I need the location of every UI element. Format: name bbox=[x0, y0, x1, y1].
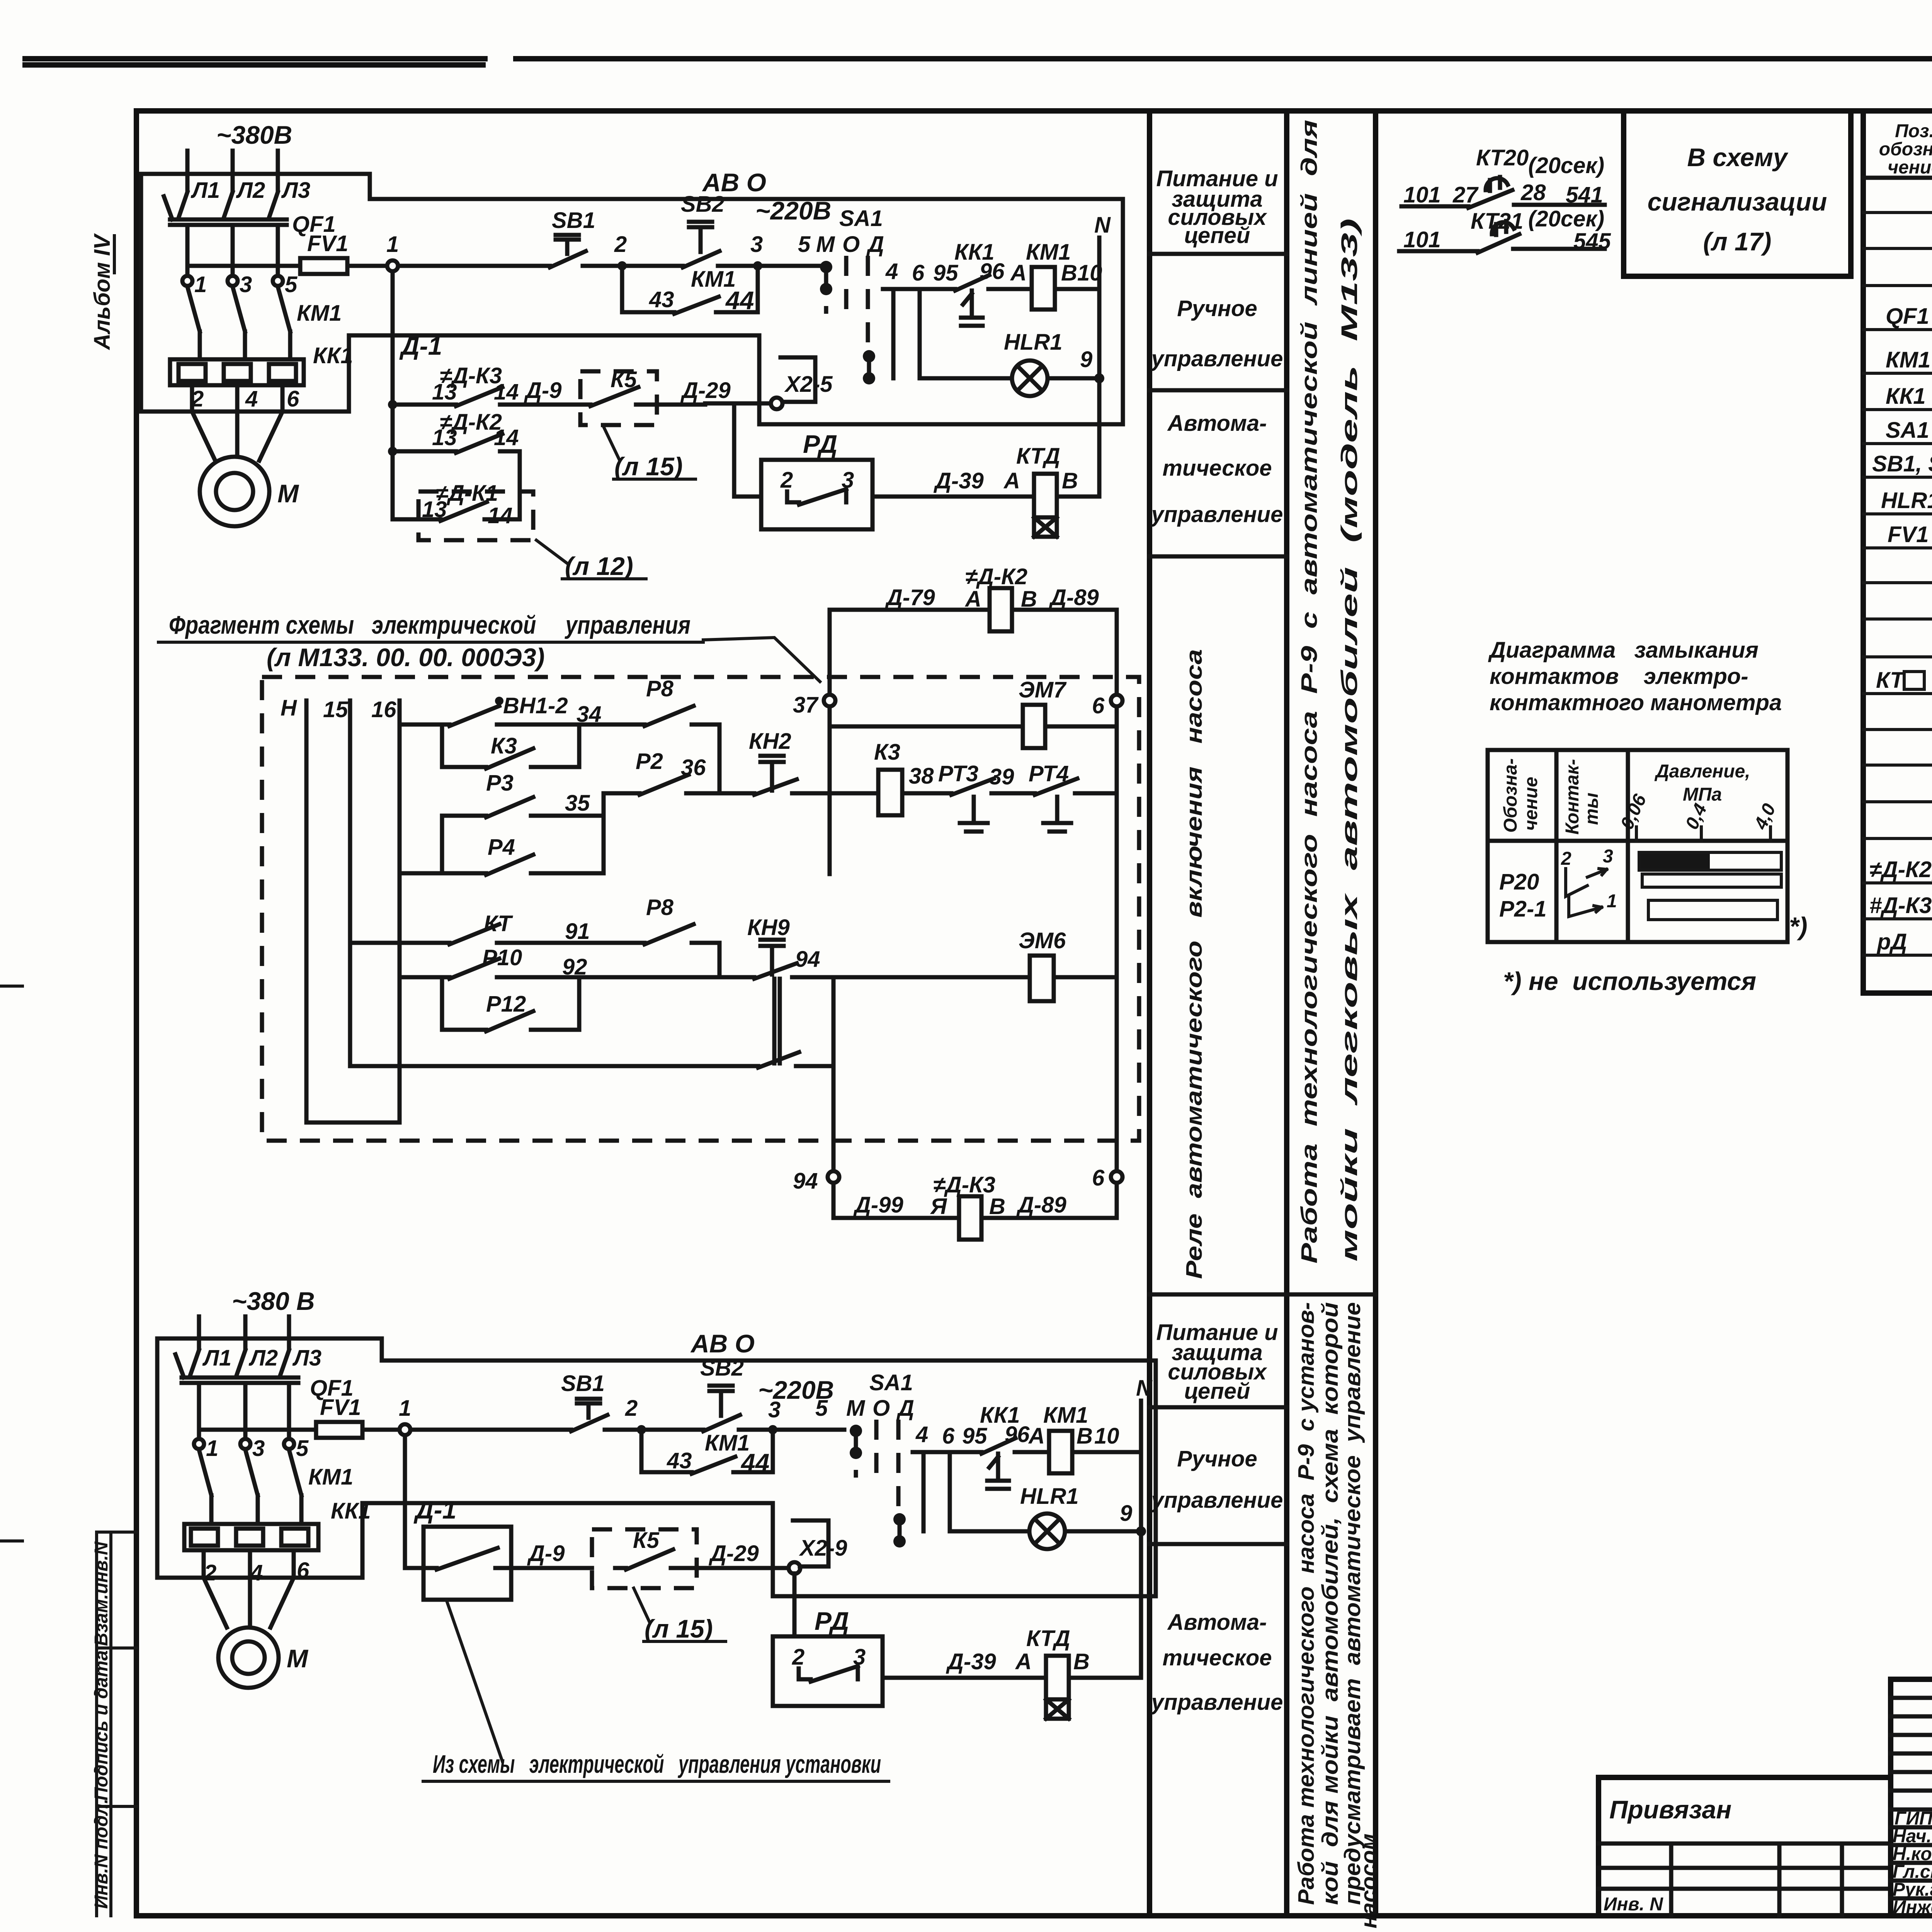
svg-text:РД: РД bbox=[815, 1607, 849, 1635]
svg-text:9: 9 bbox=[1120, 1501, 1132, 1526]
svg-text:кой для мойки автомобилей,: кой для мойки автомобилей, схема которой bbox=[1318, 1302, 1343, 1905]
button SB2 bbox=[683, 222, 719, 267]
svg-text:QF1: QF1 bbox=[1886, 304, 1929, 329]
svg-text:Л3: Л3 bbox=[292, 1345, 321, 1371]
svg-text:*): *) bbox=[1789, 912, 1808, 940]
svg-text:КН9: КН9 bbox=[747, 915, 790, 940]
pressure switch RD box bbox=[734, 403, 761, 497]
svg-text:Ручное: Ручное bbox=[1177, 1446, 1257, 1471]
Альбом IV rotated label bbox=[90, 233, 115, 350]
svg-text:Х2-9: Х2-9 bbox=[799, 1536, 847, 1561]
lamp HLR1 bbox=[1012, 361, 1048, 396]
note (l 12) bbox=[536, 540, 646, 579]
coil KM1 bbox=[1032, 267, 1055, 310]
svg-text:28: 28 bbox=[1520, 180, 1546, 205]
svg-text:FV1: FV1 bbox=[320, 1395, 361, 1420]
thermal relay KK1 heaters bbox=[170, 359, 304, 385]
svg-text:Альбом IV: Альбом IV bbox=[90, 233, 115, 350]
relay K5 contact (dashed box) bbox=[580, 371, 657, 425]
contact KK1 NC bbox=[955, 275, 989, 326]
svg-text:Р2: Р2 bbox=[636, 749, 663, 774]
svg-text:Л3: Л3 bbox=[281, 178, 310, 203]
bus N bbox=[306, 701, 400, 1122]
svg-text:14: 14 bbox=[488, 503, 513, 528]
svg-text:управление: управление bbox=[1150, 346, 1283, 371]
svg-text:1: 1 bbox=[386, 232, 399, 257]
contact RT4 bbox=[1035, 779, 1117, 832]
timer coil KTD bbox=[1034, 474, 1057, 517]
svg-text:АВ О: АВ О bbox=[690, 1329, 755, 1358]
svg-text:Фрагмент схемы электрической: Фрагмент схемы электрической управления bbox=[169, 611, 690, 639]
svg-text:3: 3 bbox=[768, 1397, 781, 1422]
wire hook to selector bbox=[793, 1520, 828, 1566]
svg-text:К3: К3 bbox=[874, 740, 900, 765]
svg-text:94: 94 bbox=[795, 947, 820, 972]
svg-text:В: В bbox=[1021, 587, 1037, 612]
svg-text:А: А bbox=[1015, 1649, 1032, 1674]
diagram table bbox=[1488, 750, 1787, 942]
svg-text:Д-9: Д-9 bbox=[524, 378, 561, 403]
contact VN1-2 row bbox=[400, 706, 579, 726]
fuse FV1 bbox=[199, 1428, 400, 1432]
coil D-K2 row bbox=[830, 610, 1117, 695]
svg-text:~380В: ~380В bbox=[216, 121, 292, 149]
wire 94 vertical bbox=[832, 977, 836, 1218]
contact KM1 aux 43-44 bbox=[641, 1430, 773, 1474]
wire node1 drop bbox=[391, 271, 395, 519]
svg-text:О: О bbox=[872, 1396, 890, 1421]
svg-text:Автома-: Автома- bbox=[1167, 411, 1267, 436]
svg-text:6: 6 bbox=[1092, 1165, 1105, 1190]
svg-text:Р2-1: Р2-1 bbox=[1499, 896, 1547, 922]
svg-text:4: 4 bbox=[245, 386, 258, 412]
svg-text:Р3: Р3 bbox=[486, 770, 514, 796]
svg-text:рД: рД bbox=[1876, 929, 1907, 954]
svg-text:В: В bbox=[1062, 468, 1078, 493]
svg-text:Л2: Л2 bbox=[236, 178, 265, 203]
contact D-K2 13-14 bbox=[393, 434, 520, 519]
svg-text:АВ О: АВ О bbox=[702, 168, 766, 197]
svg-text:Взам.инв.N: Взам.инв.N bbox=[91, 1541, 112, 1646]
svg-text:1: 1 bbox=[1607, 891, 1617, 912]
svg-text:SA1: SA1 bbox=[1886, 418, 1929, 443]
coil KM1 bbox=[1049, 1431, 1072, 1473]
svg-text:0,06: 0,06 bbox=[1617, 791, 1651, 832]
svg-text:5: 5 bbox=[815, 1396, 828, 1421]
svg-text:КМ1: КМ1 bbox=[308, 1464, 353, 1490]
svg-text:КК1: КК1 bbox=[1886, 384, 1926, 409]
wire to motor bbox=[204, 1550, 294, 1628]
svg-text:HLR1: HLR1 bbox=[1881, 488, 1932, 513]
svg-text:Из схемы электрической упр: Из схемы электрической управления устано… bbox=[433, 1750, 881, 1778]
svg-text:3: 3 bbox=[750, 232, 763, 257]
contact R4 bbox=[400, 793, 604, 875]
wire D-39 bbox=[883, 1676, 1141, 1680]
svg-text:В схему: В схему bbox=[1687, 143, 1788, 172]
svg-text:Д-29: Д-29 bbox=[708, 1541, 759, 1566]
svg-text:N: N bbox=[1094, 213, 1111, 238]
svg-text:96: 96 bbox=[1005, 1422, 1030, 1447]
svg-text:Р10: Р10 bbox=[482, 945, 522, 970]
svg-text:101: 101 bbox=[1403, 227, 1441, 252]
note (l 15) bbox=[634, 1588, 726, 1641]
svg-text:101: 101 bbox=[1403, 182, 1441, 207]
svg-text:Х2-5: Х2-5 bbox=[784, 372, 833, 397]
node 6 top bbox=[1111, 695, 1122, 706]
relay K5 contact (dashed box) bbox=[592, 1529, 697, 1588]
svg-text:Н: Н bbox=[281, 696, 297, 721]
svg-text:Д-1: Д-1 bbox=[413, 1495, 456, 1524]
right vertical bbox=[1115, 726, 1119, 1171]
svg-text:сигнализации: сигнализации bbox=[1648, 187, 1827, 216]
svg-text:≠Д-К2: ≠Д-К2 bbox=[440, 410, 502, 435]
contact R10 bbox=[400, 959, 604, 979]
svg-text:Р20: Р20 bbox=[1499, 869, 1539, 895]
svg-text:КТД: КТД bbox=[1026, 1626, 1070, 1651]
svg-text:SB1: SB1 bbox=[552, 208, 595, 233]
svg-text:РД: РД bbox=[803, 430, 837, 458]
contact KT row bbox=[350, 924, 579, 944]
svg-text:(л 17): (л 17) bbox=[1703, 227, 1772, 256]
svg-text:управление: управление bbox=[1150, 1690, 1283, 1715]
button KN2 bbox=[719, 756, 830, 795]
wire power box outline bbox=[141, 174, 370, 412]
svg-text:Подпись и дата: Подпись и дата bbox=[91, 1650, 112, 1801]
wire power box outline bbox=[157, 1338, 382, 1578]
svg-text:≠Д-К1: ≠Д-К1 bbox=[436, 481, 498, 506]
contactor KM1 main contacts bbox=[199, 1450, 301, 1524]
svg-text:Д-99: Д-99 bbox=[853, 1192, 903, 1218]
svg-text:(л 15): (л 15) bbox=[645, 1614, 713, 1643]
svg-text:Р8: Р8 bbox=[646, 895, 674, 920]
wire AB-O bus bbox=[382, 1359, 1156, 1363]
contact R2 bbox=[604, 775, 719, 795]
svg-text:2: 2 bbox=[1561, 849, 1571, 869]
node X2-9 bbox=[789, 1562, 800, 1574]
button SB1 bbox=[550, 235, 586, 267]
svg-text:Давление,: Давление, bbox=[1654, 761, 1750, 782]
lamp HLR1 bbox=[1029, 1514, 1065, 1549]
svg-text:FV1: FV1 bbox=[1888, 522, 1929, 547]
svg-text:5: 5 bbox=[285, 272, 298, 297]
svg-text:5: 5 bbox=[798, 232, 811, 257]
svg-text:Д: Д bbox=[866, 232, 884, 257]
sheet scan top edge line bbox=[25, 59, 1932, 65]
contact R12 bypass bbox=[442, 977, 579, 1031]
svg-text:КТД: КТД bbox=[1016, 444, 1060, 469]
svg-text:Д-89: Д-89 bbox=[1016, 1192, 1066, 1218]
coil D-K3 row bbox=[833, 1216, 1117, 1220]
svg-text:91: 91 bbox=[565, 919, 590, 944]
svg-text:6: 6 bbox=[1092, 693, 1105, 718]
svg-text:РТ4: РТ4 bbox=[1029, 761, 1069, 786]
svg-text:3: 3 bbox=[1603, 846, 1613, 867]
svg-text:Д-39: Д-39 bbox=[933, 468, 984, 493]
svg-text:Контак-: Контак- bbox=[1562, 759, 1583, 835]
coil EM7 row bbox=[830, 706, 1117, 726]
svg-text:94: 94 bbox=[793, 1168, 818, 1194]
svg-text:SA1: SA1 bbox=[839, 206, 883, 231]
svg-text:А: А bbox=[1003, 468, 1020, 493]
svg-text:N: N bbox=[1136, 1376, 1153, 1401]
coil K3 bbox=[830, 791, 951, 796]
privyazan box bbox=[1599, 1777, 1891, 1916]
svg-text:44: 44 bbox=[725, 286, 754, 315]
note Iz skhemy bbox=[446, 1600, 502, 1761]
node X2-5 bbox=[771, 398, 782, 409]
svg-text:Л1: Л1 bbox=[190, 178, 220, 203]
wire phase stubs bbox=[199, 1316, 289, 1349]
svg-text:Инженер: Инженер bbox=[1893, 1897, 1932, 1918]
svg-text:(20сек): (20сек) bbox=[1528, 206, 1604, 231]
svg-text:6: 6 bbox=[287, 386, 299, 412]
svg-text:ЭМ6: ЭМ6 bbox=[1019, 928, 1066, 953]
svg-text:ты: ты bbox=[1582, 793, 1602, 825]
wire hook to selector bbox=[781, 357, 815, 402]
svg-text:В: В bbox=[989, 1194, 1005, 1219]
fuse FV1 bbox=[187, 264, 387, 268]
svg-text:43: 43 bbox=[667, 1448, 692, 1473]
svg-text:чение: чение bbox=[1888, 157, 1932, 178]
svg-text:контактов электро-: контактов электро- bbox=[1490, 664, 1748, 689]
wire D-39 bbox=[872, 495, 1099, 499]
thermal relay KK1 heaters bbox=[184, 1524, 318, 1550]
svg-text:2: 2 bbox=[625, 1396, 638, 1421]
svg-text:#Д-К3: #Д-К3 bbox=[1869, 893, 1932, 918]
svg-text:контактного манометра: контактного манометра bbox=[1490, 690, 1782, 715]
contact KM1 aux 43-44 bbox=[622, 266, 758, 314]
contact D-K3 13-14 bbox=[393, 387, 563, 406]
motor M1 bbox=[218, 1628, 279, 1688]
svg-text:(л 12): (л 12) bbox=[565, 552, 633, 580]
svg-text:3: 3 bbox=[252, 1436, 265, 1461]
svg-text:КТ: КТ bbox=[484, 911, 513, 936]
contact KK1 NC bbox=[981, 1438, 1015, 1489]
button SB2 bbox=[703, 1386, 740, 1431]
node 6 bottom bbox=[1111, 1171, 1122, 1183]
wire control return bbox=[349, 199, 1123, 424]
svg-text:15: 15 bbox=[323, 697, 348, 722]
node 37 bbox=[824, 695, 835, 706]
svg-text:ЭМ7: ЭМ7 bbox=[1019, 677, 1067, 702]
svg-text:КМ1: КМ1 bbox=[1886, 347, 1930, 372]
breaker QF1 bbox=[175, 1350, 298, 1438]
svg-text:Обозна-: Обозна- bbox=[1500, 758, 1521, 833]
note (l 15) bbox=[603, 425, 696, 479]
svg-text:10: 10 bbox=[1094, 1423, 1119, 1449]
contact K3 bypass bbox=[442, 724, 579, 769]
wire coil row bbox=[883, 289, 1099, 378]
svg-text:6: 6 bbox=[912, 260, 925, 286]
svg-text:(20сек): (20сек) bbox=[1528, 153, 1604, 178]
svg-text:Д-1: Д-1 bbox=[399, 332, 442, 360]
svg-text:насосом: насосом bbox=[1356, 1833, 1381, 1929]
svg-text:Д-9: Д-9 bbox=[527, 1541, 565, 1566]
svg-text:0,4: 0,4 bbox=[1682, 801, 1711, 833]
svg-text:цепей: цепей bbox=[1184, 223, 1250, 248]
contact D-K1 13-14 (dashed box) bbox=[418, 492, 533, 540]
svg-text:РТ3: РТ3 bbox=[938, 761, 978, 786]
svg-text:В: В bbox=[1077, 1423, 1093, 1449]
svg-text:Л1: Л1 bbox=[202, 1345, 231, 1371]
pressure switch RD box bbox=[793, 1573, 797, 1636]
svg-text:М: М bbox=[277, 479, 299, 508]
svg-text:92: 92 bbox=[562, 954, 587, 980]
motor M1 bbox=[200, 457, 269, 526]
svg-text:3: 3 bbox=[240, 272, 252, 297]
svg-text:Д-89: Д-89 bbox=[1048, 585, 1099, 610]
svg-text:SB1: SB1 bbox=[561, 1371, 605, 1396]
svg-text:16: 16 bbox=[371, 697, 396, 722]
svg-text:ВН1-2: ВН1-2 bbox=[503, 693, 568, 718]
svg-text:Р12: Р12 bbox=[486, 992, 526, 1017]
svg-text:А: А bbox=[1010, 260, 1027, 286]
svg-text:мойки легковых автомобилей: мойки легковых автомобилей (модель М133) bbox=[1337, 218, 1362, 1262]
svg-text:тическое: тическое bbox=[1162, 1645, 1272, 1670]
wire AB-O bus bbox=[370, 197, 1123, 201]
svg-text:6: 6 bbox=[297, 1558, 310, 1583]
svg-text:2: 2 bbox=[792, 1645, 804, 1670]
svg-text:КТ: КТ bbox=[1876, 668, 1905, 693]
svg-text:М: М bbox=[816, 232, 835, 257]
svg-text:Инв. N: Инв. N bbox=[1604, 1894, 1663, 1915]
svg-text:Л2: Л2 bbox=[248, 1345, 278, 1371]
svg-text:М: М bbox=[287, 1644, 309, 1673]
svg-text:Работа технологического насо: Работа технологического насоса Р-9 с авт… bbox=[1297, 120, 1322, 1264]
svg-text:Диаграмма замыкания: Диаграмма замыкания bbox=[1488, 638, 1759, 663]
node to signalling circuit box bbox=[1624, 111, 1851, 276]
bus 15 bbox=[348, 701, 352, 1066]
wire to motor bbox=[192, 385, 282, 461]
button KN9 bbox=[604, 940, 833, 1063]
caption column dividers bbox=[1150, 111, 1376, 1916]
svg-text:SB1, SB2: SB1, SB2 bbox=[1872, 451, 1932, 476]
svg-text:4: 4 bbox=[885, 259, 898, 284]
svg-text:Д-79: Д-79 bbox=[884, 585, 935, 610]
contact R8 lower bbox=[579, 924, 719, 977]
svg-text:39: 39 bbox=[989, 764, 1014, 789]
svg-text:Привязан: Привязан bbox=[1609, 1795, 1731, 1824]
svg-text:М: М bbox=[846, 1396, 866, 1421]
svg-text:О: О bbox=[842, 232, 860, 257]
svg-text:Д: Д bbox=[896, 1396, 914, 1421]
bus 16 bbox=[398, 701, 402, 1122]
node 1 bbox=[387, 260, 398, 271]
svg-text:38: 38 bbox=[909, 764, 934, 789]
node 94 circle bbox=[828, 1171, 839, 1183]
wire main control line bbox=[398, 264, 823, 268]
svg-text:2: 2 bbox=[614, 232, 627, 257]
svg-text:Автома-: Автома- bbox=[1167, 1610, 1267, 1635]
svg-text:В: В bbox=[1061, 260, 1077, 286]
svg-text:43: 43 bbox=[649, 287, 674, 312]
svg-text:35: 35 bbox=[565, 791, 590, 816]
signature grid bbox=[1891, 1679, 1932, 1916]
node 1 bbox=[400, 1424, 410, 1435]
wire control return bbox=[362, 1361, 1156, 1596]
svg-text:Р4: Р4 bbox=[488, 835, 515, 860]
contactor KM1 main contacts bbox=[187, 287, 290, 359]
svg-text:К5: К5 bbox=[633, 1528, 660, 1553]
svg-text:Ручное: Ручное bbox=[1177, 296, 1257, 321]
svg-text:Работа технологического насос: Работа технологического насоса Р-9 с уст… bbox=[1294, 1302, 1319, 1905]
svg-text:FV1: FV1 bbox=[307, 231, 348, 256]
wire node1 drop bbox=[403, 1435, 407, 1568]
svg-text:6: 6 bbox=[942, 1423, 955, 1449]
svg-text:предусматривает автоматическо: предусматривает автоматическое управлени… bbox=[1340, 1302, 1365, 1905]
svg-text:SA1: SA1 bbox=[869, 1370, 913, 1395]
dashed fragment box bbox=[262, 677, 1139, 1141]
svg-text:9: 9 bbox=[1080, 347, 1092, 372]
svg-text:36: 36 bbox=[681, 755, 706, 780]
svg-text:обозна-: обозна- bbox=[1879, 139, 1932, 160]
breaker QF1 bbox=[164, 192, 287, 275]
svg-text:(л М133. 00. 00. 000Э3): (л М133. 00. 00. 000Э3) bbox=[267, 643, 545, 672]
svg-text:1: 1 bbox=[399, 1396, 411, 1421]
svg-text:*) не используется: *) не используется bbox=[1503, 967, 1756, 995]
svg-text:44: 44 bbox=[740, 1448, 769, 1477]
svg-text:КМ1: КМ1 bbox=[297, 301, 342, 326]
svg-text:МПа: МПа bbox=[1683, 784, 1722, 805]
svg-text:КН2: КН2 bbox=[749, 729, 791, 754]
svg-text:~380 В: ~380 В bbox=[232, 1287, 315, 1315]
svg-text:Инв.N подл.: Инв.N подл. bbox=[91, 1799, 112, 1909]
wire main control line bbox=[410, 1428, 844, 1432]
svg-text:1: 1 bbox=[194, 272, 207, 297]
svg-text:управление: управление bbox=[1150, 1488, 1283, 1513]
svg-text:HLR1: HLR1 bbox=[1004, 330, 1062, 355]
svg-text:(л 15): (л 15) bbox=[614, 452, 683, 481]
bottom lever wire bbox=[350, 1052, 833, 1068]
svg-text:96: 96 bbox=[980, 259, 1005, 284]
wire phase stubs bbox=[187, 151, 278, 190]
main bus vertical bbox=[828, 610, 832, 874]
svg-text:КТ20: КТ20 bbox=[1476, 145, 1529, 170]
button SB1 bbox=[571, 1399, 607, 1431]
svg-text:≠Д-К2,: ≠Д-К2, bbox=[1869, 857, 1932, 882]
left stamp strip bbox=[91, 1532, 136, 1916]
svg-text:чение: чение bbox=[1521, 777, 1541, 831]
svg-text:управление: управление bbox=[1150, 502, 1283, 527]
svg-text:Д-39: Д-39 bbox=[946, 1649, 996, 1674]
svg-text:4,0: 4,0 bbox=[1750, 800, 1780, 833]
svg-text:А: А bbox=[964, 587, 981, 612]
svg-text:тическое: тическое bbox=[1162, 456, 1272, 481]
svg-text:2: 2 bbox=[780, 468, 793, 493]
svg-text:Р8: Р8 bbox=[646, 676, 674, 701]
svg-text:37: 37 bbox=[793, 692, 819, 718]
svg-text:В: В bbox=[1073, 1649, 1090, 1674]
svg-text:Я: Я bbox=[930, 1194, 947, 1219]
svg-text:5: 5 bbox=[296, 1436, 309, 1461]
svg-text:Поз.: Поз. bbox=[1895, 121, 1932, 141]
svg-text:цепей: цепей bbox=[1184, 1379, 1250, 1404]
wire coil row bbox=[913, 1452, 1141, 1531]
svg-text:К5: К5 bbox=[611, 367, 637, 392]
coil EM6 row bbox=[833, 975, 1117, 980]
sheet fold marks bbox=[0, 986, 22, 1541]
svg-text:HLR1: HLR1 bbox=[1020, 1484, 1078, 1509]
timer coil KTD bbox=[1046, 1656, 1069, 1699]
svg-text:К3: К3 bbox=[491, 733, 517, 759]
svg-text:≠Д-К2: ≠Д-К2 bbox=[965, 564, 1027, 589]
svg-text:Д-29: Д-29 bbox=[680, 378, 731, 403]
contact R3 bbox=[442, 797, 604, 817]
svg-text:Реле автоматического включе: Реле автоматического включения насоса bbox=[1182, 649, 1207, 1279]
contact R8 bbox=[579, 706, 719, 793]
svg-text:≠Д-К3: ≠Д-К3 bbox=[440, 363, 502, 388]
svg-text:А: А bbox=[1028, 1423, 1045, 1449]
